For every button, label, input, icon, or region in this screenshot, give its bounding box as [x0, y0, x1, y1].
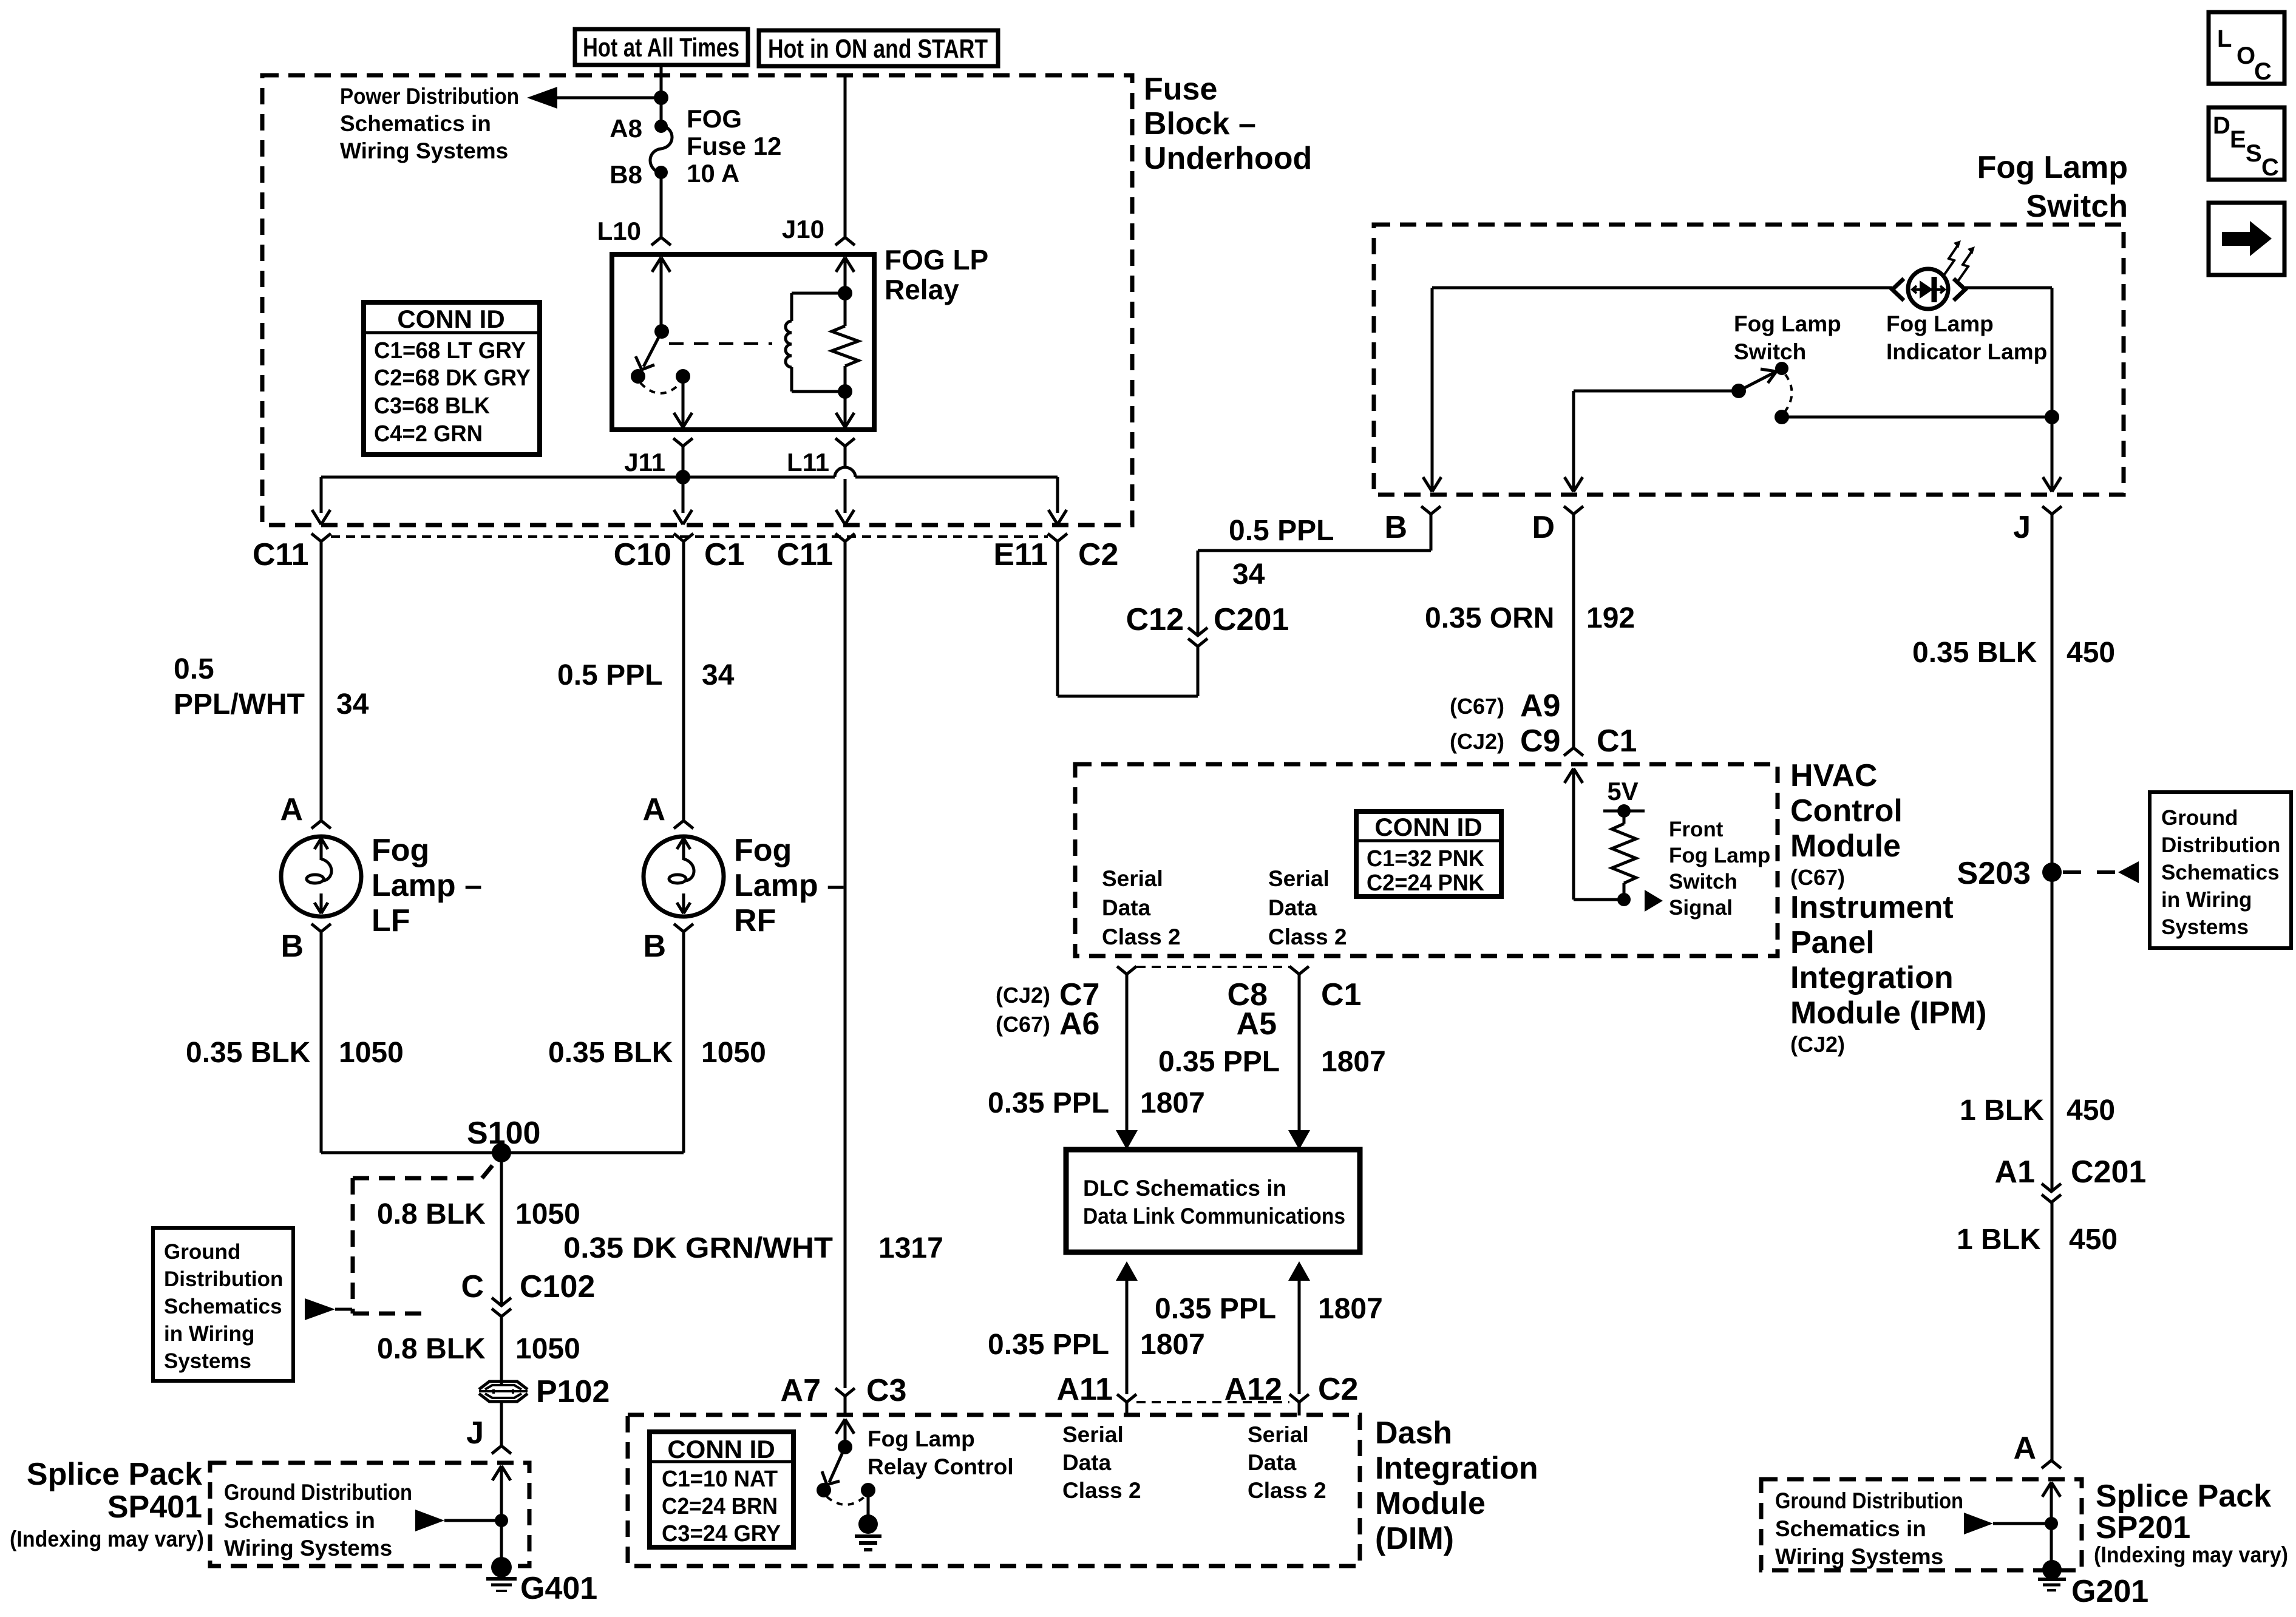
serial data wire DLC to A11	[1116, 1261, 1138, 1415]
svg-text:C3=24 GRY: C3=24 GRY	[662, 1521, 781, 1547]
wire: Hot in ON and START to J10	[844, 76, 847, 237]
svg-text:in Wiring: in Wiring	[164, 1322, 254, 1346]
relay actuation dashed link	[669, 342, 772, 345]
relay coil	[786, 293, 845, 392]
svg-text:Switch: Switch	[1734, 339, 1806, 364]
svg-text:Wiring Systems: Wiring Systems	[340, 138, 508, 163]
wire label 0.35 PPL 1807 upper-right	[1158, 1046, 1386, 1078]
DIM serial data label left	[1062, 1422, 1141, 1503]
svg-text:FOG LP: FOG LP	[885, 244, 988, 276]
svg-text:0.35 ORN: 0.35 ORN	[1425, 602, 1554, 634]
svg-text:192: 192	[1586, 602, 1635, 634]
fuse block underhood dashed box	[262, 75, 1132, 525]
svg-text:C11: C11	[776, 537, 833, 572]
wire: fuse B8 to L10	[660, 172, 663, 237]
svg-text:HVAC: HVAC	[1790, 758, 1877, 793]
hvac input wire to pull-up	[1564, 768, 1624, 900]
power label box: Hot in ON and START	[759, 30, 998, 66]
svg-text:(DIM): (DIM)	[1375, 1521, 1454, 1556]
wire B to indicator lamp	[1432, 286, 1892, 290]
connector A at LF lamp	[280, 792, 331, 829]
svg-text:Distribution: Distribution	[164, 1267, 283, 1291]
svg-text:Signal: Signal	[1669, 896, 1733, 920]
arrow into SP401 bus	[415, 1510, 508, 1531]
svg-text:Data: Data	[1268, 895, 1317, 920]
connector id table CONN ID HVAC	[1356, 812, 1501, 897]
note: Ground Distribution Schematics in Wiring Systems SP401	[224, 1480, 412, 1561]
splice pack SP401 labels	[10, 1457, 204, 1551]
ground G401	[486, 1557, 597, 1606]
svg-text:SP401: SP401	[107, 1490, 202, 1525]
connector J at switch	[2013, 506, 2062, 545]
svg-text:(CJ2): (CJ2)	[996, 983, 1050, 1008]
svg-text:Integration: Integration	[1375, 1451, 1538, 1486]
svg-text:A12: A12	[1224, 1372, 1282, 1407]
connector A at RF lamp	[642, 792, 693, 829]
relay switch input wire	[652, 257, 670, 339]
svg-text:Data: Data	[1062, 1450, 1112, 1475]
hvac signal label Front Fog Lamp Switch Signal	[1669, 818, 1770, 920]
wire 34 PPL to Fog Lamp RF	[682, 541, 685, 820]
labels A11 A12 C2	[1056, 1372, 1358, 1407]
connector A7 C3	[781, 1373, 907, 1408]
relay coil output wire	[836, 366, 854, 427]
grommet P102	[479, 1374, 610, 1409]
hvac signal arrow	[1645, 890, 1663, 912]
svg-text:0.35 PPL: 0.35 PPL	[988, 1329, 1109, 1361]
fog lamp switch title	[1977, 150, 2128, 224]
connector D at switch	[1532, 506, 1583, 545]
connector C12 C201	[1126, 602, 1289, 646]
wire 192 ORN D to HVAC C1	[1572, 514, 1575, 748]
hvac 5V label and rail	[1603, 777, 1645, 818]
svg-text:450: 450	[2069, 1224, 2118, 1256]
svg-text:(C67): (C67)	[996, 1012, 1050, 1037]
svg-text:L11: L11	[787, 448, 829, 476]
svg-text:Serial: Serial	[1268, 866, 1330, 891]
wire label 0.8 BLK 1050 upper	[377, 1198, 580, 1230]
DIM fog lamp relay control switch	[817, 1396, 881, 1550]
svg-text:Fog: Fog	[372, 833, 429, 868]
svg-text:G401: G401	[520, 1571, 597, 1606]
connector J at SP401	[466, 1415, 511, 1454]
svg-text:C10: C10	[614, 537, 671, 572]
svg-text:C1=32 PNK: C1=32 PNK	[1367, 846, 1485, 872]
svg-text:Relay: Relay	[885, 274, 959, 305]
svg-text:0.35 PPL: 0.35 PPL	[988, 1087, 1109, 1119]
corner icon box LOC	[2209, 12, 2284, 85]
connector A at SP201	[2013, 1431, 2061, 1468]
svg-text:in Wiring: in Wiring	[2161, 888, 2252, 912]
svg-text:34: 34	[1232, 558, 1265, 591]
wire label 0.8 BLK 1050 lower	[377, 1333, 580, 1365]
fog lamp RF label	[734, 833, 844, 938]
svg-text:A11: A11	[1056, 1372, 1113, 1407]
svg-text:A1: A1	[1995, 1154, 2035, 1190]
serial data wire DLC to A12	[1288, 1261, 1310, 1415]
connector C10 C1	[614, 534, 745, 572]
svg-text:Hot in ON and START: Hot in ON and START	[768, 34, 988, 64]
relay suppression resistor	[832, 326, 858, 366]
svg-text:C201: C201	[1214, 602, 1289, 637]
svg-text:C: C	[2261, 154, 2279, 181]
svg-text:LF: LF	[372, 903, 410, 938]
junction node battery feed	[654, 90, 668, 105]
wire 1050 BLK from RF lamp	[682, 932, 685, 1153]
fog lamp LF bulb	[281, 836, 361, 917]
svg-text:0.35 BLK: 0.35 BLK	[548, 1037, 673, 1069]
svg-text:C12: C12	[1126, 602, 1184, 637]
svg-text:Schematics: Schematics	[2161, 861, 2280, 884]
wire: relay output bus	[321, 446, 1058, 513]
svg-text:Data Link Communications: Data Link Communications	[1083, 1204, 1345, 1229]
corner icon box DESC	[2209, 107, 2284, 181]
svg-text:Relay Control: Relay Control	[868, 1454, 1014, 1479]
svg-text:C3=68 BLK: C3=68 BLK	[374, 393, 491, 419]
wire label 0.5 PPL/WHT 34	[174, 653, 369, 720]
DLC note box	[1066, 1150, 1360, 1252]
fog lamp LF label	[372, 833, 482, 938]
splice pack SP201 labels	[2094, 1479, 2288, 1567]
svg-text:1807: 1807	[1321, 1046, 1386, 1078]
svg-text:Switch: Switch	[1669, 870, 1737, 893]
svg-text:Serial: Serial	[1062, 1422, 1124, 1447]
svg-text:A: A	[280, 792, 303, 827]
svg-text:C1=68 LT GRY: C1=68 LT GRY	[374, 338, 526, 364]
svg-text:P102: P102	[536, 1374, 610, 1409]
svg-text:Module (IPM): Module (IPM)	[1790, 995, 1987, 1031]
svg-text:Ground Distribution: Ground Distribution	[1775, 1488, 1963, 1513]
svg-text:1807: 1807	[1140, 1087, 1205, 1119]
svg-text:Power Distribution: Power Distribution	[340, 84, 519, 109]
svg-text:J: J	[466, 1415, 484, 1451]
hvac serial data label left	[1102, 866, 1181, 949]
svg-text:(C67): (C67)	[1790, 865, 1845, 890]
svg-text:CONN ID: CONN ID	[667, 1435, 775, 1463]
connector C11 mid	[776, 534, 855, 572]
svg-text:D: D	[1532, 510, 1555, 545]
serial data wire HVAC C7/A6 to DLC	[1116, 966, 1138, 1150]
svg-text:Schematics in: Schematics in	[340, 111, 491, 136]
svg-text:Fuse: Fuse	[1144, 72, 1217, 107]
svg-text:0.35 PPL: 0.35 PPL	[1158, 1046, 1280, 1078]
svg-text:Fog Lamp: Fog Lamp	[868, 1426, 975, 1451]
svg-text:Instrument: Instrument	[1790, 890, 1954, 925]
fog lamp RF bulb	[644, 836, 724, 917]
svg-text:Ground Distribution: Ground Distribution	[224, 1480, 412, 1505]
wire label 0.35 BLK 450	[1912, 637, 2115, 669]
wire indicator to J	[1965, 288, 2052, 417]
dashed pointer to ground note right	[2063, 861, 2139, 883]
svg-text:Integration: Integration	[1790, 960, 1954, 995]
svg-text:Panel: Panel	[1790, 925, 1875, 960]
fog lamp switch dashed box	[1374, 225, 2124, 495]
svg-text:1 BLK: 1 BLK	[1957, 1224, 2041, 1256]
svg-text:Wiring Systems: Wiring Systems	[224, 1536, 392, 1561]
svg-text:C9: C9	[1520, 724, 1560, 759]
arrow from note box to lasso	[305, 1298, 352, 1320]
svg-text:0.8 BLK: 0.8 BLK	[377, 1333, 486, 1365]
svg-text:0.5 PPL: 0.5 PPL	[557, 659, 662, 691]
svg-text:C1=10 NAT: C1=10 NAT	[662, 1466, 778, 1492]
svg-text:J: J	[2013, 510, 2031, 545]
svg-text:1050: 1050	[515, 1333, 580, 1365]
svg-text:CONN ID: CONN ID	[397, 305, 504, 333]
connector L11	[787, 438, 855, 476]
wire label 0.35 BLK 1050 mid	[548, 1037, 766, 1069]
wire 1050 to C102	[500, 1153, 503, 1384]
connector C102	[461, 1269, 595, 1317]
svg-text:Splice Pack: Splice Pack	[27, 1457, 202, 1492]
svg-text:Wiring Systems: Wiring Systems	[1775, 1544, 1943, 1569]
svg-text:C: C	[2254, 58, 2272, 85]
fuse block title	[1144, 72, 1312, 176]
svg-text:C4=2 GRN: C4=2 GRN	[374, 421, 483, 447]
indicator lamp connector marks	[1892, 279, 1965, 300]
svg-text:L: L	[2217, 25, 2232, 52]
svg-text:O: O	[2237, 42, 2255, 69]
arrows into fuse block bottom edge	[312, 510, 1067, 524]
svg-text:S203: S203	[1957, 856, 2031, 891]
svg-text:Module: Module	[1790, 829, 1901, 864]
wire label 0.35 ORN 192	[1425, 602, 1635, 634]
arrow into SP201 bus	[1964, 1513, 2058, 1534]
svg-text:450: 450	[2067, 637, 2115, 669]
connector B at switch	[1384, 506, 1441, 545]
svg-text:0.35 DK GRN/WHT: 0.35 DK GRN/WHT	[563, 1232, 833, 1264]
wire label 0.5 PPL 34 at B	[1229, 515, 1334, 591]
connector id table CONN ID fuse block	[364, 302, 540, 455]
svg-text:Switch: Switch	[2026, 189, 2128, 224]
svg-text:A7: A7	[781, 1373, 821, 1408]
ground G201	[2038, 1560, 2148, 1609]
dim top connector dashed line	[1136, 1401, 1289, 1403]
svg-text:Fog Lamp: Fog Lamp	[1977, 150, 2128, 185]
svg-text:Class 2: Class 2	[1248, 1478, 1326, 1503]
svg-text:Systems: Systems	[2161, 915, 2249, 939]
svg-text:0.5: 0.5	[174, 653, 214, 685]
svg-text:D: D	[2213, 112, 2230, 139]
svg-text:450: 450	[2067, 1094, 2115, 1127]
wire label 0.5 PPL 34 mid	[557, 659, 735, 691]
relay coil feed from J10	[836, 257, 854, 326]
svg-text:E11: E11	[993, 537, 1048, 572]
ground lasso dashed pointer left	[353, 1158, 499, 1314]
wire label 0.35 PPL 1807 lower-right	[1155, 1293, 1383, 1325]
svg-text:Ground: Ground	[2161, 806, 2238, 830]
svg-text:C2: C2	[1078, 537, 1118, 572]
svg-text:Indicator Lamp: Indicator Lamp	[1886, 339, 2047, 364]
connector C1 chevron at HVAC	[1564, 748, 1583, 756]
svg-text:5V: 5V	[1607, 777, 1638, 805]
svg-text:Front: Front	[1669, 818, 1724, 841]
connector C11 left	[253, 534, 331, 572]
svg-text:0.8 BLK: 0.8 BLK	[377, 1198, 486, 1230]
svg-text:C: C	[461, 1269, 484, 1304]
svg-text:A: A	[2013, 1431, 2036, 1466]
wire label 0.35 BLK 1050 left	[186, 1037, 404, 1069]
svg-text:34: 34	[702, 659, 735, 691]
DIM title	[1375, 1415, 1538, 1556]
svg-text:C1: C1	[1597, 724, 1637, 759]
svg-text:A9: A9	[1520, 688, 1560, 724]
svg-text:(C67): (C67)	[1450, 694, 1504, 719]
relay label FOG LP Relay	[885, 244, 988, 305]
svg-text:(Indexing may vary): (Indexing may vary)	[10, 1527, 204, 1551]
svg-text:CONN ID: CONN ID	[1374, 813, 1482, 841]
hvac bottom connector dashed line	[1136, 966, 1289, 968]
svg-text:Control: Control	[1790, 793, 1903, 829]
connector J10	[782, 215, 855, 245]
fuse F12: FOG Fuse 12 10 A	[610, 104, 781, 189]
svg-text:G201: G201	[2071, 1574, 2148, 1609]
relay switch contacts	[631, 369, 690, 393]
svg-text:E: E	[2230, 126, 2246, 153]
svg-text:Fog Lamp: Fog Lamp	[1669, 844, 1770, 867]
svg-text:Module: Module	[1375, 1486, 1486, 1521]
svg-text:Splice Pack: Splice Pack	[2096, 1479, 2271, 1514]
dash integration module dashed box	[628, 1415, 1360, 1566]
svg-text:Lamp –: Lamp –	[372, 868, 482, 903]
svg-text:1050: 1050	[515, 1198, 580, 1230]
svg-text:J10: J10	[782, 215, 824, 243]
svg-text:C201: C201	[2071, 1154, 2146, 1190]
svg-text:1050: 1050	[339, 1037, 404, 1069]
svg-text:PPL/WHT: PPL/WHT	[174, 688, 305, 720]
wire 1050 BLK from LF lamp	[320, 932, 323, 1153]
svg-text:0.35 BLK: 0.35 BLK	[186, 1037, 311, 1069]
wire label 0.35 PPL 1807 upper-left	[988, 1087, 1205, 1119]
relay switch arm	[636, 331, 662, 370]
svg-text:C1: C1	[1321, 977, 1361, 1012]
connector J11	[624, 438, 693, 476]
svg-text:0.5 PPL: 0.5 PPL	[1229, 515, 1334, 547]
fog lamp switch symbol	[1574, 362, 2059, 424]
svg-text:Ground: Ground	[164, 1240, 240, 1264]
DIM switch label Fog Lamp Relay Control	[868, 1426, 1014, 1479]
hvac pull-up resistor	[1612, 811, 1636, 906]
svg-text:1050: 1050	[701, 1037, 766, 1069]
connector id table CONN ID DIM	[650, 1432, 793, 1547]
wire label 0.35 PPL 1807 lower-left	[988, 1329, 1205, 1361]
svg-text:C102: C102	[520, 1269, 595, 1304]
svg-text:Systems: Systems	[164, 1349, 251, 1373]
svg-text:Schematics in: Schematics in	[1775, 1516, 1926, 1541]
svg-text:A6: A6	[1059, 1006, 1099, 1042]
svg-text:Lamp –: Lamp –	[734, 868, 844, 903]
svg-text:C2=24 PNK: C2=24 PNK	[1367, 870, 1485, 896]
svg-text:0.35 BLK: 0.35 BLK	[1912, 637, 2037, 669]
svg-text:S100: S100	[467, 1116, 540, 1151]
note box: Ground Distribution Schematics right	[2150, 792, 2291, 948]
wire 1317 DK GRN/WHT relay control	[844, 541, 847, 1388]
arrow to Power Distribution	[527, 87, 661, 109]
svg-text:1317: 1317	[878, 1232, 943, 1264]
labels C8 C1 A5 at HVAC	[1228, 977, 1362, 1042]
svg-text:34: 34	[336, 688, 369, 720]
note: Power Distribution Schematics in Wiring Systems	[340, 84, 519, 163]
svg-text:Schematics in: Schematics in	[224, 1508, 375, 1533]
svg-text:C1: C1	[704, 537, 744, 572]
svg-text:Class 2: Class 2	[1268, 924, 1347, 949]
svg-text:C11: C11	[253, 537, 309, 572]
fog lamp switch label	[1734, 311, 1841, 364]
svg-text:1 BLK: 1 BLK	[1960, 1094, 2044, 1127]
svg-text:Dash: Dash	[1375, 1415, 1452, 1451]
relay switch output wire	[674, 376, 692, 427]
svg-text:DLC Schematics in: DLC Schematics in	[1083, 1176, 1286, 1201]
DIM serial data label right	[1248, 1422, 1326, 1503]
svg-text:Schematics: Schematics	[164, 1295, 282, 1318]
power label box: Hot at All Times	[575, 29, 748, 65]
svg-text:SP201: SP201	[2096, 1510, 2190, 1545]
relay K: FOG LP Relay box	[612, 254, 874, 430]
svg-text:Distribution: Distribution	[2161, 833, 2280, 857]
connector E11 C2	[993, 534, 1118, 572]
svg-text:Hot at All Times: Hot at All Times	[583, 33, 739, 63]
note: Ground Distribution Schematics SP201	[1775, 1488, 1963, 1569]
labels C7 A6 at HVAC	[996, 977, 1099, 1042]
svg-text:(CJ2): (CJ2)	[1790, 1032, 1845, 1057]
svg-text:Serial: Serial	[1248, 1422, 1309, 1447]
svg-text:Data: Data	[1248, 1450, 1297, 1475]
svg-text:A: A	[642, 792, 665, 827]
svg-text:L10: L10	[597, 217, 641, 245]
fog lamp indicator label	[1886, 311, 2047, 364]
switch box output wires	[1432, 288, 2052, 492]
splice pack SP201 dashed box	[1761, 1479, 2082, 1570]
svg-text:S: S	[2246, 140, 2262, 167]
hvac module title	[1790, 758, 1987, 1057]
svg-text:J11: J11	[624, 448, 665, 476]
svg-text:A5: A5	[1237, 1006, 1277, 1042]
hvac serial data label right	[1268, 866, 1347, 949]
svg-text:Fog Lamp: Fog Lamp	[1886, 311, 1994, 336]
svg-text:10 A: 10 A	[687, 159, 739, 188]
svg-text:C2=24 BRN: C2=24 BRN	[662, 1494, 778, 1519]
svg-text:(CJ2): (CJ2)	[1450, 729, 1504, 754]
arrows at switch box bottom	[1423, 477, 2061, 492]
fog lamp indicator lamp	[1908, 269, 1948, 309]
svg-text:B8: B8	[610, 160, 642, 189]
splice S100	[321, 1116, 684, 1162]
svg-text:B: B	[280, 929, 304, 964]
svg-text:0.35 PPL: 0.35 PPL	[1155, 1293, 1276, 1325]
SP401 entry wire	[492, 1466, 511, 1567]
svg-text:C3: C3	[866, 1373, 906, 1408]
svg-text:RF: RF	[734, 903, 776, 938]
wire label 1 BLK 450 upper	[1960, 1094, 2115, 1127]
svg-text:B: B	[1384, 510, 1407, 545]
indicator lamp flash arrows	[1944, 240, 1975, 280]
connector B at LF lamp	[280, 924, 331, 964]
note box: Ground Distribution Schematics left	[153, 1228, 293, 1381]
serial data wire HVAC C8/C1 to DLC	[1288, 966, 1310, 1150]
wire 34 PPL/WHT to Fog Lamp LF	[320, 541, 323, 820]
svg-text:Fuse 12: Fuse 12	[687, 132, 781, 160]
svg-text:B: B	[643, 929, 666, 964]
svg-text:Class 2: Class 2	[1102, 924, 1181, 949]
hvac control module dashed box	[1075, 764, 1778, 956]
svg-text:Fog: Fog	[734, 833, 792, 868]
splice pack SP401 dashed box	[210, 1463, 529, 1566]
splice S203	[1957, 856, 2062, 891]
wire label 0.35 DK GRN/WHT 1317	[563, 1232, 943, 1264]
labels A9 C9 C1 at HVAC input	[1450, 688, 1637, 759]
svg-text:Data: Data	[1102, 895, 1151, 920]
svg-text:C2=68 DK GRY: C2=68 DK GRY	[374, 365, 531, 391]
connector L10	[597, 217, 671, 245]
